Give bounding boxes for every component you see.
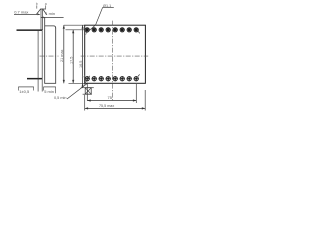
hole callout leader — [86, 8, 102, 34]
vertical dimension line 17.5 — [72, 30, 74, 84]
dimension 0.7 max arrow — [38, 14, 41, 16]
detail arrow left — [36, 5, 38, 8]
top pin row centers — [86, 28, 138, 31]
tail mark top-right pin — [138, 31, 140, 33]
key box top line — [81, 87, 94, 89]
dimension 1 min arrow — [41, 17, 44, 19]
dimension 1 min line — [41, 16, 64, 18]
extension line from pin tips — [37, 31, 39, 92]
bottom pin row center dots — [86, 78, 137, 80]
svg-text:1±0,5: 1±0,5 — [19, 89, 30, 94]
pin tip edge lines — [40, 9, 42, 30]
svg-text:14: 14 — [82, 74, 86, 78]
vertical dimension line 21 max — [63, 25, 65, 83]
extension line pin1 down — [86, 83, 88, 101]
bottom pin row (8 pins with cross centers) — [85, 77, 138, 81]
bottom pin row crosses — [85, 76, 139, 81]
pin A (top lead, side view) — [17, 29, 43, 31]
pin tip chamfer left — [36, 9, 41, 15]
module body cover seam with rounded corner — [45, 26, 56, 28]
tail mark bottom-right pin — [138, 74, 140, 76]
svg-text:21 max: 21 max — [60, 49, 64, 62]
svg-text:5 min: 5 min — [44, 89, 54, 94]
module body side view bottom edge — [44, 82, 56, 84]
front view body outline — [85, 25, 146, 83]
svg-text:75,5 max: 75,5 max — [99, 104, 114, 108]
key box bottom line — [83, 93, 92, 95]
dimension 75.5 max line — [85, 107, 146, 109]
front view vertical centerline — [111, 21, 113, 101]
key box with cross — [85, 88, 91, 95]
svg-text:1 min: 1 min — [45, 11, 55, 16]
side view horizontal centerline — [40, 55, 59, 57]
module body side view left edge — [44, 17, 46, 83]
extension line pin8 down — [135, 84, 137, 103]
pin tip chamfer right — [43, 9, 47, 15]
hole callout underline — [103, 7, 114, 9]
dimension 5 min bracket line — [43, 86, 55, 88]
bottom leader — [84, 76, 90, 85]
extension right edge down — [144, 90, 146, 111]
leader 0.5 min — [67, 83, 88, 99]
svg-text:75: 75 — [108, 95, 113, 100]
pin tip bar — [41, 8, 47, 10]
background — [0, 0, 160, 119]
top pin row (8 pins) — [85, 28, 138, 32]
module body side view right edge — [55, 28, 57, 84]
dimension 0.7 max line — [14, 13, 40, 15]
svg-text:0.7 max: 0.7 max — [14, 9, 28, 14]
extension line top pin row to dims — [66, 29, 85, 31]
vertical dimension line right — [82, 25, 84, 88]
extension line bottom edge to dims — [69, 82, 85, 84]
svg-text:16,5: 16,5 — [79, 61, 83, 68]
svg-text:0,5 min: 0,5 min — [54, 96, 66, 100]
extension line pin end — [41, 31, 43, 92]
extension left edge down — [84, 95, 86, 111]
detail arrow right — [45, 5, 47, 8]
svg-text:17,5: 17,5 — [69, 57, 73, 64]
front view horizontal centerline — [81, 55, 149, 57]
pin B (bottom lead, side view) — [27, 78, 43, 80]
extension line top edge to dims — [64, 24, 85, 26]
dimension 75 line — [87, 100, 136, 102]
dimension 1±0.5 bracket line — [18, 86, 34, 88]
svg-text:2: 2 — [85, 32, 87, 36]
